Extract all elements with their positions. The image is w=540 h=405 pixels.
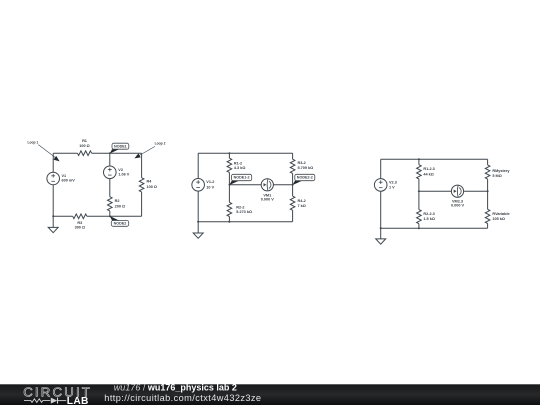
wire node to voltmeter bbox=[229, 184, 261, 186]
wire left branch upper circuit 2 bbox=[197, 153, 199, 178]
wire R2 to bottom bbox=[109, 211, 111, 216]
resistor R2 bbox=[108, 197, 126, 211]
wire bottom rail circuit 2 bbox=[198, 221, 292, 223]
wire left branch lower circuit 3 bbox=[380, 191, 382, 228]
wire node to RVariable bbox=[487, 191, 489, 209]
wire RVariable to bottom bbox=[487, 224, 489, 229]
wire bottom-right segment circuit 1 bbox=[87, 215, 142, 217]
wire voltmeter to right branch bbox=[273, 184, 292, 186]
footer url line bbox=[104, 393, 261, 403]
node NODE2 bbox=[109, 215, 129, 226]
voltmeter VM1 bbox=[261, 179, 275, 202]
wire bottom-left segment circuit 1 bbox=[53, 215, 72, 217]
wire RMystery to node bbox=[487, 179, 489, 191]
svg-text:R2-2.3: R2-2.3 bbox=[423, 212, 434, 216]
svg-text:R1: R1 bbox=[82, 139, 87, 143]
wire V2 to R2 bbox=[109, 179, 111, 197]
resistor R2-2 bbox=[227, 202, 252, 216]
logo text LAB bbox=[67, 396, 89, 405]
svg-text:Loop 2: Loop 2 bbox=[155, 142, 166, 146]
resistor R1-2.3 bbox=[417, 165, 435, 179]
wire R2-2.3 to bottom bbox=[418, 224, 420, 229]
svg-text:R3: R3 bbox=[77, 221, 82, 225]
svg-text:200 Ω: 200 Ω bbox=[115, 204, 125, 208]
svg-text:1.06 V: 1.06 V bbox=[118, 173, 129, 177]
ground bbox=[376, 239, 386, 244]
junction dot top middle circuit 2 bbox=[228, 152, 230, 154]
wire ground stub circuit 3 bbox=[380, 228, 382, 239]
svg-text:0.000 V: 0.000 V bbox=[451, 204, 465, 208]
svg-text:300 Ω: 300 Ω bbox=[75, 226, 85, 230]
wire right branch upper circuit 2 bbox=[292, 153, 294, 159]
wire left branch lower circuit 2 bbox=[197, 191, 199, 222]
svg-text:V2.3: V2.3 bbox=[389, 180, 397, 184]
footer bar bbox=[0, 384, 540, 405]
wire node to R2-2.3 bbox=[418, 191, 420, 209]
svg-text:1 V: 1 V bbox=[389, 185, 395, 189]
svg-text:NODE2-2: NODE2-2 bbox=[297, 176, 313, 180]
wire bottom rail circuit 3 bbox=[381, 227, 488, 229]
wire left branch upper circuit 3 bbox=[380, 159, 382, 178]
svg-text:V1-2: V1-2 bbox=[206, 180, 214, 184]
wire right branch lower bbox=[141, 192, 143, 216]
svg-text:V2: V2 bbox=[118, 168, 123, 172]
wire R4-2 to bottom bbox=[292, 210, 294, 221]
svg-text:wu176 / wu176_physics lab 2: wu176 / wu176_physics lab 2 bbox=[114, 383, 237, 393]
svg-text:NODE2: NODE2 bbox=[114, 222, 127, 226]
svg-text:VM1: VM1 bbox=[263, 193, 271, 197]
svg-text:5.709 kΩ: 5.709 kΩ bbox=[298, 166, 314, 170]
svg-text:44 kΩ: 44 kΩ bbox=[423, 172, 433, 176]
svg-text:R1-2.3: R1-2.3 bbox=[423, 167, 434, 171]
wire R3-2 to node bbox=[292, 173, 294, 184]
svg-text:7 kΩ: 7 kΩ bbox=[298, 204, 306, 208]
svg-text:NODE1: NODE1 bbox=[114, 144, 127, 148]
loop annotation Loop 1 bbox=[28, 141, 60, 162]
svg-text:10 V: 10 V bbox=[206, 185, 214, 189]
resistor RMystery bbox=[485, 165, 510, 179]
wire top-left segment circuit 1 bbox=[53, 152, 77, 154]
ground bbox=[193, 233, 203, 238]
svg-text:4.3 kΩ: 4.3 kΩ bbox=[234, 166, 246, 170]
svg-text:RMystery: RMystery bbox=[492, 169, 510, 173]
svg-text:http://circuitlab.com/ctxt4w43: http://circuitlab.com/ctxt4w432z3ze bbox=[104, 393, 261, 403]
svg-text:NODE1-2: NODE1-2 bbox=[234, 176, 250, 180]
svg-text:105 kΩ: 105 kΩ bbox=[492, 217, 505, 221]
svg-text:5 MΩ: 5 MΩ bbox=[492, 174, 501, 178]
junction dot bottom-left circuit 1 bbox=[52, 215, 54, 217]
svg-text:R4-2: R4-2 bbox=[298, 199, 306, 203]
wire middle branch top stub circuit 3 bbox=[418, 159, 420, 164]
wire node to R4-2 bbox=[292, 185, 294, 196]
junction dot bottom-middle circuit 2 bbox=[228, 221, 230, 223]
node NODE1 bbox=[109, 143, 129, 154]
resistor R3 bbox=[73, 214, 87, 230]
wire ground stub circuit 2 bbox=[197, 222, 199, 233]
svg-text:RVariable: RVariable bbox=[492, 212, 509, 216]
voltage source V2.3 bbox=[374, 179, 396, 192]
voltage source V1 bbox=[47, 172, 75, 185]
junction dot bottom-left circuit 3 bbox=[380, 227, 382, 229]
ground bbox=[48, 227, 58, 232]
CircuitLab logo text CIRCUIT bbox=[23, 384, 92, 399]
svg-text:R1-2: R1-2 bbox=[234, 161, 242, 165]
svg-text:600 mV: 600 mV bbox=[62, 179, 76, 183]
junction dot top middle circuit 3 bbox=[418, 158, 420, 160]
resistor R1-2 bbox=[227, 158, 245, 172]
svg-text:Loop 1: Loop 1 bbox=[28, 141, 39, 145]
svg-text:1.5 kΩ: 1.5 kΩ bbox=[423, 217, 435, 221]
node NODE2-2 bbox=[292, 174, 315, 185]
wire left branch upper bbox=[52, 153, 54, 172]
svg-text:R3-2: R3-2 bbox=[298, 161, 306, 165]
svg-text:V1: V1 bbox=[62, 174, 67, 178]
resistor R2-2.3 bbox=[417, 210, 435, 224]
wire R2-2 to bottom bbox=[228, 217, 230, 222]
node NODE1-2 bbox=[229, 174, 252, 185]
wire ground stub circuit 1 bbox=[52, 216, 54, 227]
logo resistor-diode squiggle bbox=[24, 398, 66, 404]
footer title line bbox=[114, 383, 237, 393]
wire top-right segment circuit 1 bbox=[92, 152, 142, 154]
wire top rail circuit 2 bbox=[198, 152, 292, 154]
wire right branch upper bbox=[141, 153, 143, 178]
svg-text:R2: R2 bbox=[115, 199, 120, 203]
wire right branch upper circuit 3 bbox=[487, 159, 489, 165]
svg-text:R2-2: R2-2 bbox=[236, 206, 244, 210]
wire node to R2-2 bbox=[228, 185, 230, 203]
resistor R4-2 bbox=[290, 196, 306, 210]
junction dot middle node circuit 3 bbox=[418, 190, 420, 192]
wire top rail circuit 3 bbox=[381, 158, 488, 160]
junction dot right node circuit 3 bbox=[487, 190, 489, 192]
svg-text:LAB: LAB bbox=[67, 396, 89, 405]
resistor R1 bbox=[77, 139, 91, 156]
wire middle branch top stub bbox=[109, 153, 111, 166]
wire middle branch top stub circuit 2 bbox=[228, 153, 230, 158]
resistor RVariable bbox=[485, 209, 509, 223]
voltage source V2 bbox=[104, 166, 130, 179]
wire R1-2.3 to node bbox=[418, 179, 420, 191]
loop annotation Loop 2 bbox=[134, 142, 165, 159]
junction dot bottom-middle circuit 3 bbox=[418, 227, 420, 229]
svg-text:R4: R4 bbox=[147, 180, 153, 184]
svg-text:0.000 V: 0.000 V bbox=[261, 198, 275, 202]
wire node to voltmeter circuit 3 bbox=[419, 190, 452, 192]
wire R1-2 to node bbox=[228, 172, 230, 184]
wire voltmeter to right branch circuit 3 bbox=[464, 190, 488, 192]
resistor R4 bbox=[139, 178, 157, 192]
svg-text:100 Ω: 100 Ω bbox=[147, 185, 157, 189]
junction dot bottom-left circuit 2 bbox=[197, 221, 199, 223]
svg-text:100 Ω: 100 Ω bbox=[79, 144, 89, 148]
wire left branch lower bbox=[52, 185, 54, 217]
voltmeter VM2.3 bbox=[451, 185, 465, 208]
voltage source V1-2 bbox=[192, 179, 215, 192]
resistor R3-2 bbox=[290, 159, 313, 173]
svg-text:5.273 kΩ: 5.273 kΩ bbox=[236, 210, 252, 214]
